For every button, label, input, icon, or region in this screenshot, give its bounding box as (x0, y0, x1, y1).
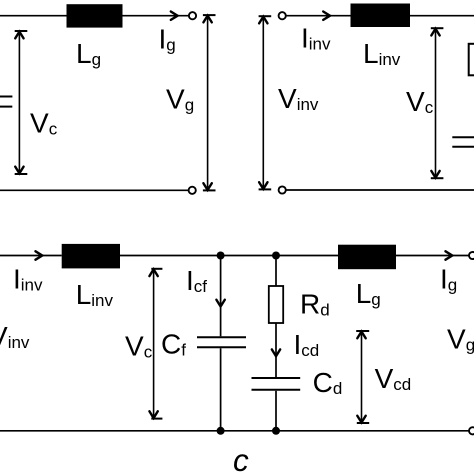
svg-text:c: c (233, 442, 249, 474)
